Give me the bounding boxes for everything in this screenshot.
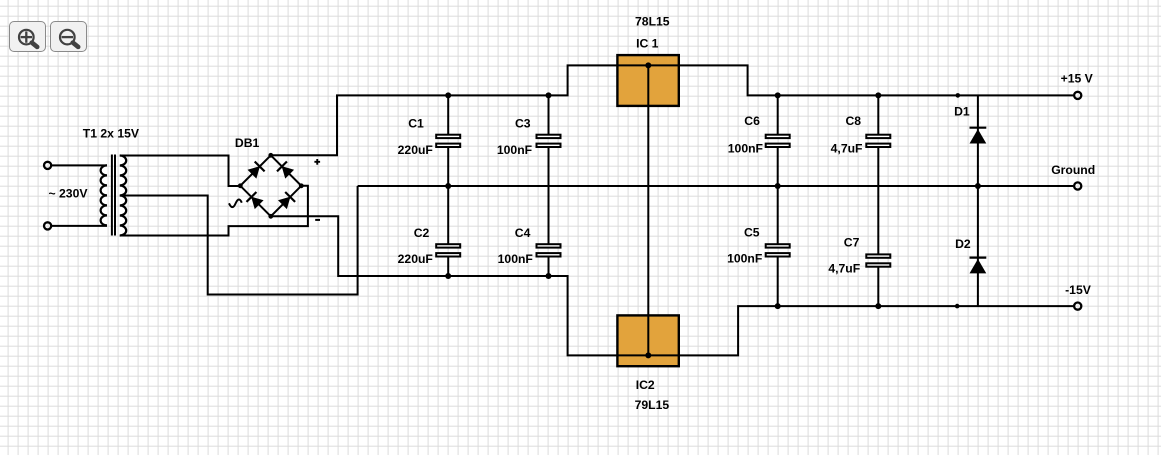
diode DB1 upper-left [247,161,264,178]
svg-text:79L15: 79L15 [635,398,670,412]
wire center tap to ground rail [120,186,358,295]
label + (bridge positive) [314,161,320,163]
svg-text:78L15: 78L15 [635,15,670,29]
wire IC2 ground pin segment [647,315,649,355]
wire bridge + output to top rail [271,65,618,155]
capacitor C4 [548,186,550,244]
svg-text:IC 1: IC 1 [636,36,659,50]
node C7/-15V rail [875,303,881,309]
wire through IC2 [617,354,678,356]
svg-text:D2: D2 [955,237,971,251]
node IC2 pin junction [645,352,651,358]
capacitor C1 [447,95,449,134]
wire IC1 ground pin segment [647,65,649,106]
svg-text:D1: D1 [954,105,970,119]
svg-text:IC2: IC2 [636,378,655,392]
node C4/lower rail [546,273,552,279]
wire IC1 output to +15V rail [679,65,1074,95]
wire IC2 output to -15V rail [679,306,1074,355]
wire secondary top to bridge [120,156,240,187]
svg-text:+15 V: +15 V [1061,71,1094,85]
wire primary bottom lead [52,225,107,227]
capacitor C2 [447,186,449,244]
terminal primary top [44,162,51,169]
svg-text:C5: C5 [744,226,760,240]
terminal Ground [1074,182,1081,189]
svg-text:T1 2x 15V: T1 2x 15V [83,127,140,141]
node DB1 left [238,183,243,188]
svg-text:220uF: 220uF [398,252,433,266]
wire ground rail [358,185,1074,187]
node IC1 pin junction [645,62,651,68]
node C1/top rail [445,92,451,98]
svg-text:100nF: 100nF [497,143,532,157]
transformer T1 core [111,155,113,236]
diode DB1 lower-right [278,192,295,209]
node C8/top rail [875,92,881,98]
bridge DB1 outline [240,155,301,216]
capacitor C6 [777,95,779,134]
capacitor C8 [877,95,879,134]
svg-text:4,7uF: 4,7uF [828,262,860,276]
svg-text:C1: C1 [408,116,424,130]
node C6/top rail [775,92,781,98]
svg-text:C7: C7 [844,236,860,250]
node C6-C5/ground [775,183,781,189]
wire bridge - output to lower rail [271,216,618,355]
node D1-D2/ground [975,183,981,189]
node C1-C2/ground [445,183,451,189]
capacitor C7 [877,186,879,254]
svg-text:100nF: 100nF [498,252,533,266]
svg-text:100nF: 100nF [727,251,762,265]
svg-text:-15V: -15V [1065,283,1092,297]
svg-text:Ground: Ground [1051,163,1095,177]
wire IC2 input pin segment [617,354,678,356]
capacitor C3 [548,95,550,134]
svg-text:4,7uF: 4,7uF [831,142,863,156]
diode D2 [977,186,979,306]
AC sine symbol [229,199,242,207]
node DB1 bottom [268,214,273,219]
svg-text:~ 230V: ~ 230V [49,186,89,200]
capacitor C5 [777,186,779,244]
diode DB1 upper-right [277,161,294,178]
svg-text:C3: C3 [515,116,531,130]
transformer T1 primary winding [101,165,107,225]
node on -15V rail [955,304,960,309]
terminal primary bottom [44,222,51,229]
terminal +15V [1074,92,1081,99]
regulator IC2 79L15 body [617,315,678,366]
diode DB1 lower-left [246,192,263,209]
transformer T1 secondary winding [120,156,126,236]
svg-text:DB1: DB1 [235,136,260,150]
node C2/lower rail [445,273,451,279]
diode D1 [977,95,979,186]
svg-text:220uF: 220uF [398,143,433,157]
svg-text:C8: C8 [846,114,862,128]
wire IC pins to ground [647,65,649,355]
svg-text:C2: C2 [414,226,430,240]
svg-text:100nF: 100nF [728,142,763,156]
regulator IC1 78L15 body [617,55,678,106]
node DB1 top [268,153,273,158]
wire IC1 input pin segment [617,64,678,66]
zoom-in button [9,21,46,52]
wire primary top lead [52,164,107,166]
node DB1 right [299,183,304,188]
zoom-out button [50,21,87,52]
terminal -15V [1074,303,1081,310]
wire secondary bottom to bridge [120,186,308,236]
node on +15V rail [956,93,961,98]
svg-text:C4: C4 [515,226,531,240]
svg-text:C6: C6 [744,114,760,128]
wire through IC1 [617,64,678,66]
node C3/top rail [546,92,552,98]
label - (bridge negative) [315,219,320,221]
node C5/-15V rail [775,303,781,309]
